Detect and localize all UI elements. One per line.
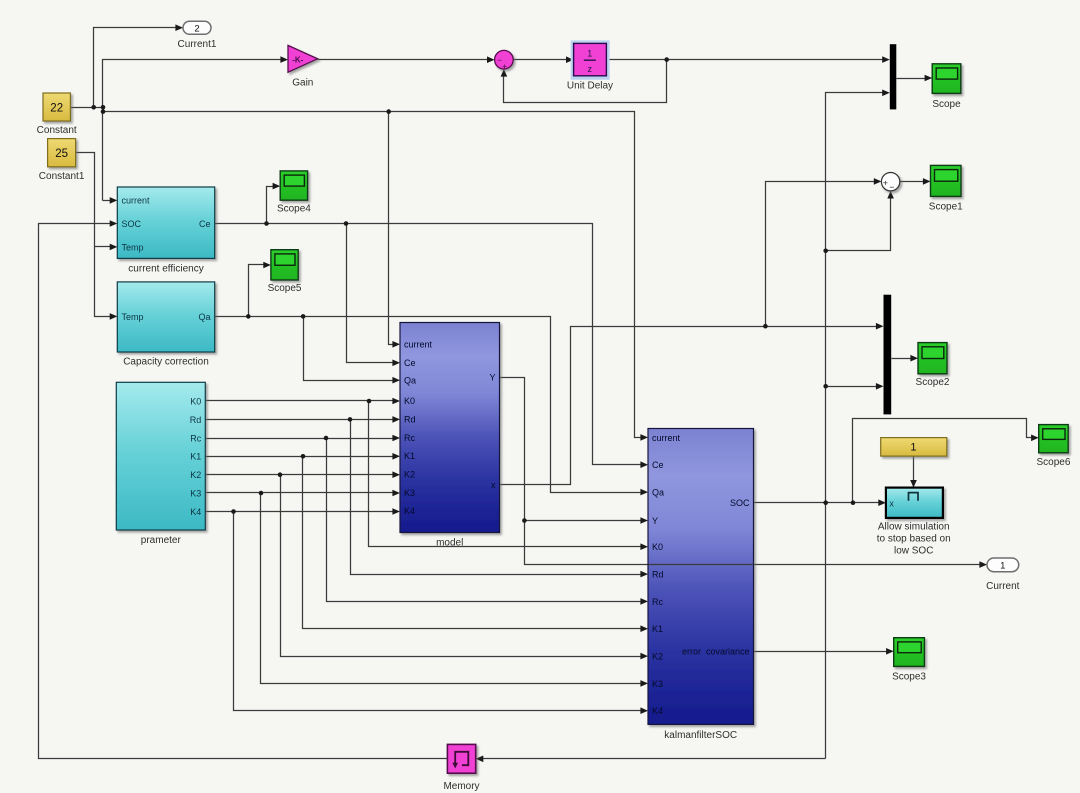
svg-text:Ce: Ce: [652, 460, 664, 470]
scope block Scope6: [1039, 425, 1069, 453]
svg-text:prameter: prameter: [141, 535, 182, 546]
wire branch K3 down to kalman K3: [261, 493, 644, 684]
svg-text:Rc: Rc: [190, 433, 201, 443]
svg-text:Rd: Rd: [404, 415, 416, 425]
wire Unit Delay feedback to Sum1 plus input: [504, 60, 667, 103]
svg-text:x: x: [491, 480, 496, 490]
wire Ce wire to kalman Ce input: [215, 224, 644, 465]
svg-text:K2: K2: [652, 652, 663, 662]
svg-text:Gain: Gain: [292, 78, 313, 89]
svg-text:K1: K1: [190, 452, 201, 462]
wire prameter Rc to model Rc: [206, 438, 396, 440]
wire kalman SOC output to stop block: [754, 502, 882, 504]
mux bar (lower): [884, 295, 892, 415]
subsystem prameter: [116, 382, 205, 530]
svg-text:x: x: [889, 499, 894, 509]
wire branch to Current1 outport: [94, 28, 179, 108]
svg-text:Temp: Temp: [122, 242, 144, 252]
svg-text:Y: Y: [489, 373, 495, 383]
svg-text:K0: K0: [190, 396, 201, 406]
wire prameter K3 to model K3: [206, 492, 396, 494]
svg-text:Memory: Memory: [443, 781, 479, 792]
svg-text:Qa: Qa: [652, 488, 664, 498]
wire branch x to Sum2 plus input: [766, 182, 877, 327]
svg-text:Rc: Rc: [404, 433, 415, 443]
svg-text:Scope2: Scope2: [916, 377, 950, 388]
svg-text:Scope3: Scope3: [892, 672, 926, 683]
sum block Sum2 (white): [881, 173, 899, 193]
sum block Sum1 (magenta): [495, 50, 514, 71]
wire into Memory input: [481, 758, 826, 760]
unit delay block Unit Delay: [571, 40, 610, 79]
wire current trunk vertical to Gain and current-efficiency: [103, 60, 284, 201]
wire branch SOC to mux2 input2: [826, 386, 879, 388]
svg-text:K2: K2: [404, 470, 415, 480]
svg-text:25: 25: [55, 148, 68, 160]
svg-text:Scope6: Scope6: [1036, 457, 1070, 468]
wire model x output up to mux2: [500, 327, 879, 485]
wire branch Rd down to kalman Rd: [351, 420, 644, 575]
svg-text:error covariance: error covariance: [682, 647, 750, 657]
outport oval Current1 (2): [183, 21, 211, 34]
svg-text:Constant: Constant: [37, 125, 77, 136]
scope block Scope1: [931, 165, 962, 196]
wire branch SOC to Sum2 minus input: [826, 196, 891, 251]
svg-text:2: 2: [194, 23, 199, 34]
constant block Constant1 value 25: [48, 139, 76, 167]
svg-text:K1: K1: [652, 624, 663, 634]
svg-text:K0: K0: [404, 396, 415, 406]
wire Constant-1 down into stop block: [913, 457, 915, 484]
wire prameter K4 to model K4: [206, 511, 396, 513]
wire branch K1 down to kalman K1: [303, 457, 644, 629]
scope block Scope2: [918, 343, 947, 374]
svg-text:-K-: -K-: [292, 55, 303, 64]
svg-text:1: 1: [1000, 560, 1005, 571]
wire branch Y into kalman Y input: [525, 520, 644, 522]
svg-text:+: +: [883, 177, 888, 187]
wire branch K0 down to kalman K0: [369, 401, 644, 547]
svg-text:Scope4: Scope4: [277, 204, 311, 215]
subsystem model: [400, 323, 500, 533]
wire Constant22 output: [71, 107, 103, 109]
wire stub into current-efficiency current input: [103, 200, 113, 202]
wire prameter K1 to model K1: [206, 456, 396, 458]
svg-text:+: +: [502, 61, 507, 71]
svg-text:Allow simulation: Allow simulation: [878, 522, 950, 533]
svg-text:K4: K4: [404, 506, 415, 516]
svg-text:kalmanfilterSOC: kalmanfilterSOC: [664, 730, 737, 741]
svg-text:Current1: Current1: [178, 39, 217, 50]
wire branch K2 down to kalman K2: [281, 475, 644, 657]
wire long current wire to kalman current input: [103, 112, 644, 438]
subsystem current efficiency: [117, 187, 214, 258]
memory block Memory: [447, 744, 475, 773]
svg-text:K3: K3: [190, 488, 201, 498]
wire Sum1 output to Unit Delay: [514, 59, 570, 61]
wire mux2 output to Scope2: [892, 358, 914, 360]
svg-text:Scope1: Scope1: [929, 202, 963, 213]
wire Qa wire to kalman Qa input: [215, 317, 644, 493]
svg-text:Unit Delay: Unit Delay: [567, 81, 613, 92]
svg-text:z: z: [588, 64, 593, 74]
wire branch Qa to Scope5: [249, 265, 267, 317]
scope block Scope3: [894, 638, 925, 667]
wire SOC trunk vertical (mux1 / sum / mux2 / Memory): [826, 93, 886, 759]
svg-text:model: model: [436, 538, 463, 549]
constant block Constant value 22: [43, 93, 70, 121]
svg-text:K1: K1: [404, 451, 415, 461]
stop simulation block: [886, 488, 943, 518]
svg-text:SOC: SOC: [730, 498, 750, 508]
svg-text:1: 1: [910, 442, 916, 454]
wire branch Rc down to kalman Rc: [327, 439, 644, 602]
constant block value 1 (wide): [881, 438, 947, 457]
svg-text:K4: K4: [652, 706, 663, 716]
svg-text:Y: Y: [652, 516, 658, 526]
wire SOC feedback from Memory to current-efficiency SOC: [39, 224, 448, 759]
svg-text:SOC: SOC: [122, 219, 142, 229]
svg-text:Scope: Scope: [932, 99, 961, 110]
svg-text:K2: K2: [190, 470, 201, 480]
subsystem kalmanfilterSOC: [648, 429, 754, 725]
svg-text:K4: K4: [190, 507, 201, 517]
wire branch SOC to Scope6: [853, 419, 1035, 503]
wire prameter K2 to model K2: [206, 474, 396, 476]
svg-text:Capacity correction: Capacity correction: [123, 357, 209, 368]
svg-text:current: current: [404, 340, 433, 350]
wire Gain output to Sum1: [318, 59, 491, 61]
svg-text:K0: K0: [652, 542, 663, 552]
wire Sum2 output to Scope1: [900, 181, 927, 183]
svg-text:Qa: Qa: [404, 376, 416, 386]
svg-text:Ce: Ce: [404, 358, 416, 368]
wire prameter Rd to model Rd: [206, 419, 396, 421]
svg-text:to stop based on: to stop based on: [877, 534, 951, 545]
mux bar (top): [890, 44, 897, 109]
wire branch Ce to model Ce input: [347, 224, 396, 363]
svg-text:current: current: [652, 433, 681, 443]
svg-text:Rd: Rd: [190, 415, 202, 425]
svg-text:low SOC: low SOC: [894, 546, 933, 557]
svg-text:Constant1: Constant1: [39, 171, 85, 182]
wire branch Ce to Scope4: [267, 187, 276, 224]
outport oval Current (1): [987, 558, 1019, 572]
wire branch Qa to model Qa input: [304, 317, 396, 381]
wire Y-to-Current wire segment over kalman block: [649, 564, 754, 566]
svg-text:current: current: [122, 195, 151, 205]
wire kalman error covariance to Scope3: [754, 651, 890, 653]
wire branch to model current input: [389, 112, 396, 345]
svg-text:Qa: Qa: [198, 312, 210, 322]
subsystem Capacity correction: [117, 282, 214, 352]
scope block Scope5: [271, 250, 298, 280]
wire model Y output to kalman Y and Current outport: [500, 378, 983, 565]
wire mux1 output to Scope: [897, 78, 928, 80]
svg-text:22: 22: [50, 103, 63, 115]
svg-text:Current: Current: [986, 581, 1020, 592]
svg-text:Scope5: Scope5: [268, 283, 302, 294]
wire Constant1-25 to Temp inputs: [76, 153, 113, 317]
gain block Gain: [288, 45, 318, 72]
svg-text:Ce: Ce: [199, 219, 211, 229]
scope block Scope4: [280, 171, 307, 200]
svg-text:Rc: Rc: [652, 597, 663, 607]
wire branch to current-efficiency Temp input: [95, 246, 113, 248]
junction dots: [91, 105, 96, 110]
svg-text:−: −: [889, 182, 894, 192]
wire prameter K0 to model K0: [206, 400, 396, 402]
svg-text:1: 1: [587, 49, 592, 59]
svg-text:K3: K3: [652, 679, 663, 689]
svg-text:K3: K3: [404, 488, 415, 498]
wire Unit Delay output to mux1 input1: [607, 59, 886, 61]
wire branch K4 down to kalman K4: [234, 512, 644, 711]
scope block Scope: [932, 64, 961, 94]
svg-text:Temp: Temp: [122, 312, 144, 322]
svg-text:Rd: Rd: [652, 570, 664, 580]
svg-text:current efficiency: current efficiency: [128, 264, 203, 275]
